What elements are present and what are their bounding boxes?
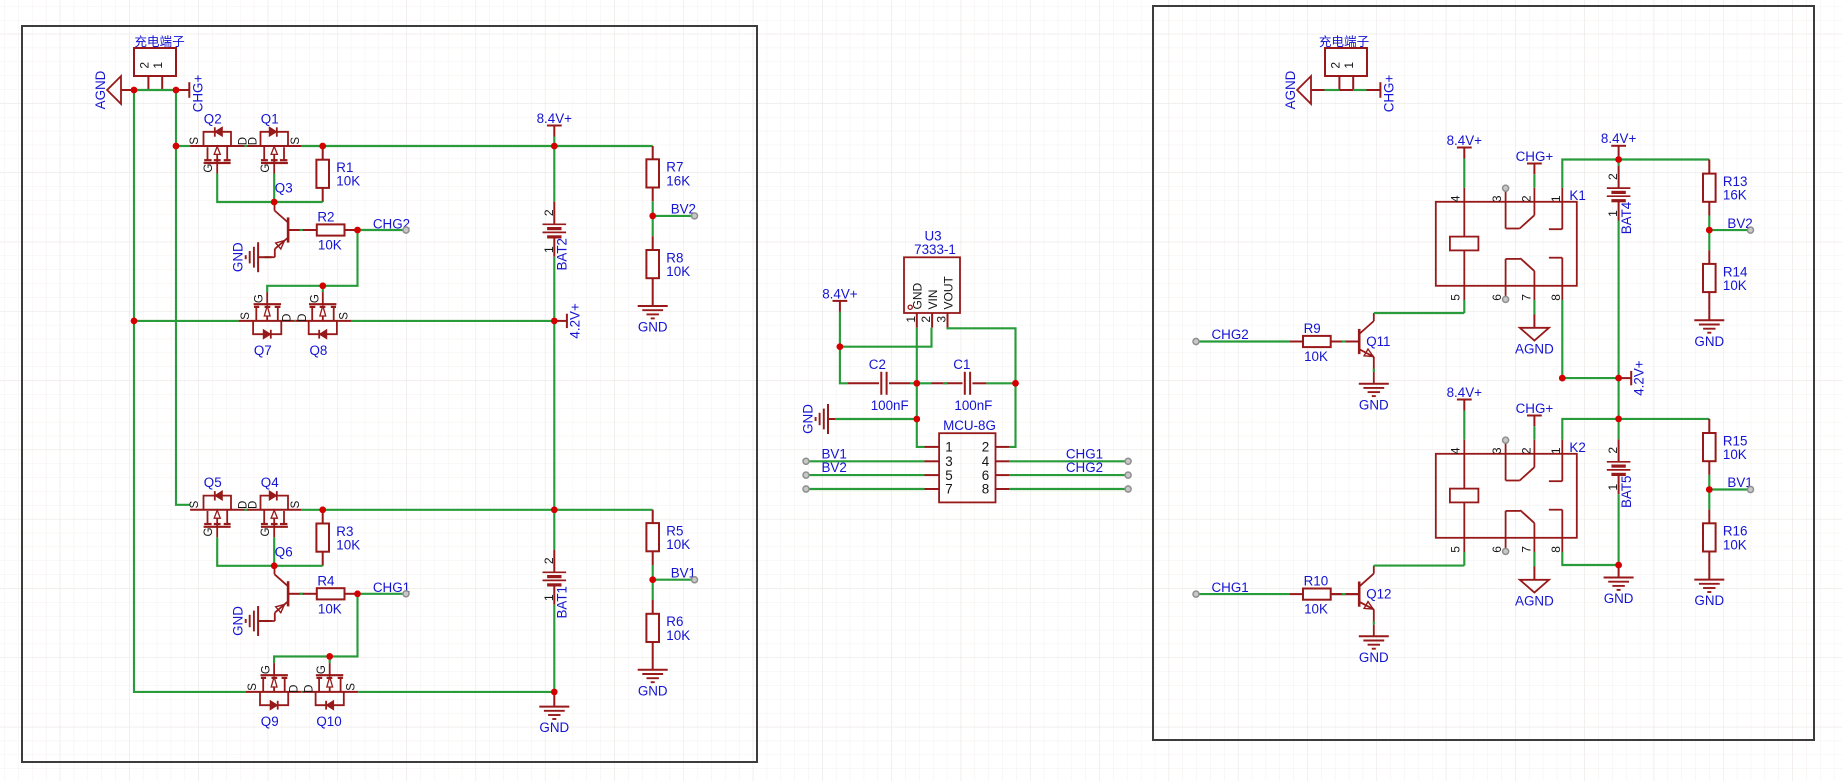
power flag 8.4V+ xyxy=(1457,147,1472,149)
svg-text:4: 4 xyxy=(982,454,990,469)
svg-text:G: G xyxy=(260,527,272,536)
ground AGND xyxy=(1533,315,1535,328)
junction battery column R5 row xyxy=(551,507,558,514)
junction BAT4/4.2V+ xyxy=(1615,375,1622,382)
resistor R7 xyxy=(646,159,659,187)
wire pin7 stub xyxy=(806,488,925,490)
svg-text:C2: C2 xyxy=(869,357,886,372)
wire U3 GND down xyxy=(917,328,925,447)
transistor Q12 xyxy=(1358,582,1361,607)
junction CHG2 node xyxy=(354,227,361,234)
svg-text:8.4V+: 8.4V+ xyxy=(1601,131,1637,146)
svg-text:G: G xyxy=(260,164,272,173)
wire CHG+ to K1 pin2 xyxy=(1533,174,1535,187)
wire R9 left pin xyxy=(1290,341,1303,343)
svg-text:Q3: Q3 xyxy=(275,181,293,196)
svg-text:3: 3 xyxy=(945,454,952,469)
ground AGND xyxy=(107,76,121,104)
wire C1 to VOUT column xyxy=(986,382,1015,384)
svg-text:1: 1 xyxy=(1606,210,1620,217)
svg-text:D: D xyxy=(248,501,260,509)
svg-text:D: D xyxy=(304,685,316,693)
svg-text:R10: R10 xyxy=(1304,574,1329,589)
svg-text:BAT4: BAT4 xyxy=(1619,201,1634,234)
svg-text:GND: GND xyxy=(231,242,246,272)
wire pin2 jumper xyxy=(1325,89,1340,91)
svg-text:K2: K2 xyxy=(1569,440,1585,455)
svg-text:CHG+: CHG+ xyxy=(1516,401,1554,416)
power flag 4.2V+ xyxy=(1619,377,1632,379)
svg-text:S: S xyxy=(189,137,201,145)
transistor Q1 xyxy=(246,145,301,147)
svg-text:CHG+: CHG+ xyxy=(1382,75,1397,113)
svg-text:D: D xyxy=(289,685,301,693)
wire R15 to BV1 xyxy=(1708,461,1710,475)
svg-text:8: 8 xyxy=(982,482,989,497)
wire R4 right pin xyxy=(345,593,358,595)
svg-text:2: 2 xyxy=(1606,447,1620,454)
svg-text:Q1: Q1 xyxy=(261,111,279,126)
wire R15 pin xyxy=(1708,419,1710,433)
net label BV1 xyxy=(653,579,692,581)
svg-text:5: 5 xyxy=(945,468,952,483)
svg-text:D: D xyxy=(297,314,309,322)
svg-text:3: 3 xyxy=(1490,447,1504,454)
wire pin1 jumper xyxy=(1353,89,1366,91)
svg-text:16K: 16K xyxy=(1723,188,1747,203)
wire VOUT to C1/MCU xyxy=(948,328,1016,447)
svg-text:3: 3 xyxy=(935,316,949,323)
svg-text:MCU-8G: MCU-8G xyxy=(943,418,996,433)
svg-text:GND: GND xyxy=(1694,334,1724,349)
wire row to BAT2 xyxy=(553,146,555,202)
net label CHG1 xyxy=(1193,591,1199,597)
svg-text:10K: 10K xyxy=(666,628,690,643)
wire BV2 to R8 xyxy=(652,216,654,236)
junction C-row left xyxy=(914,380,921,387)
svg-text:2: 2 xyxy=(1606,173,1620,180)
wire Q8 S to battery column xyxy=(351,320,554,322)
wire R14 bottom xyxy=(1708,292,1710,320)
svg-text:AGND: AGND xyxy=(1515,342,1554,357)
svg-text:BAT2: BAT2 xyxy=(555,238,570,271)
svg-text:BV2: BV2 xyxy=(822,460,847,475)
resistor R5 xyxy=(646,523,659,551)
wire Q5 gate down xyxy=(217,537,323,566)
transistor Q4 xyxy=(246,509,301,511)
svg-text:10K: 10K xyxy=(1304,349,1328,364)
transistor Q9 xyxy=(246,691,302,693)
svg-text:10K: 10K xyxy=(666,537,690,552)
svg-text:1: 1 xyxy=(542,594,556,601)
svg-text:Q11: Q11 xyxy=(1366,334,1390,349)
svg-text:Q6: Q6 xyxy=(275,545,293,560)
wire Q2 gate down xyxy=(217,173,323,202)
svg-text:1: 1 xyxy=(904,316,918,323)
wire R2 right pin xyxy=(345,229,358,231)
wire R16 bottom xyxy=(1708,552,1710,580)
power flag CHG+ xyxy=(1367,89,1381,91)
junction bottom GND xyxy=(1615,562,1622,569)
battery BAT4 xyxy=(1618,166,1620,188)
wire R8 bottom pin xyxy=(652,278,654,306)
junction Q3 node xyxy=(271,199,278,206)
wire Q10 S to GND column xyxy=(358,691,554,693)
svg-text:Q7: Q7 xyxy=(254,343,272,358)
svg-text:G: G xyxy=(261,665,273,674)
ground GND xyxy=(1359,635,1389,637)
svg-text:7: 7 xyxy=(1519,294,1533,301)
svg-text:GND: GND xyxy=(1694,593,1724,608)
svg-text:G: G xyxy=(309,294,321,303)
svg-text:2: 2 xyxy=(1328,62,1342,69)
wire Q6 base to R4 xyxy=(303,593,317,595)
svg-text:8: 8 xyxy=(1549,294,1563,301)
wire Q11 emitter xyxy=(1373,369,1375,373)
wire Q4 gate down xyxy=(273,537,275,566)
net label CHG2 xyxy=(1193,339,1199,345)
svg-text:10K: 10K xyxy=(318,238,342,253)
net label BV1 xyxy=(1709,488,1747,490)
wire AGND pin xyxy=(121,89,134,91)
svg-text:6: 6 xyxy=(1490,294,1504,301)
svg-text:4: 4 xyxy=(1448,447,1462,454)
wire Q7-Q8 drain join xyxy=(295,320,296,322)
junction GND node xyxy=(914,416,921,423)
svg-text:VOUT: VOUT xyxy=(941,275,955,309)
svg-text:S: S xyxy=(189,500,201,508)
wire BV2 to R14 xyxy=(1708,230,1710,250)
wire BV1 to R16 xyxy=(1708,490,1710,510)
wire K2 pin7 down xyxy=(1533,552,1535,567)
svg-text:100nF: 100nF xyxy=(871,398,909,413)
svg-text:R2: R2 xyxy=(317,210,334,225)
svg-text:1: 1 xyxy=(151,62,165,69)
battery BAT1 xyxy=(553,550,555,572)
power flag 8.4V+ xyxy=(1611,145,1626,147)
svg-text:6: 6 xyxy=(982,468,989,483)
svg-text:G: G xyxy=(316,665,328,674)
svg-text:10K: 10K xyxy=(1723,447,1747,462)
svg-text:4.2V+: 4.2V+ xyxy=(567,303,582,339)
svg-text:G: G xyxy=(203,527,215,536)
wire BAT4 bottom xyxy=(1618,221,1620,379)
net label BV2 xyxy=(1709,229,1747,231)
svg-text:4: 4 xyxy=(1448,195,1462,202)
ground AGND xyxy=(1533,567,1535,580)
svg-text:CHG2: CHG2 xyxy=(1212,327,1249,342)
power flag 8.4V+ xyxy=(833,300,848,302)
transistor Q10 xyxy=(302,691,358,693)
wire 8.4V+ down xyxy=(840,312,848,383)
svg-text:10K: 10K xyxy=(336,538,360,553)
wire CHG2 to Q7/Q8 gates xyxy=(267,230,357,292)
wire Q12 collector to K2 pin5 xyxy=(1374,565,1465,567)
resistor R2 xyxy=(317,224,345,235)
svg-text:Q2: Q2 xyxy=(204,111,222,126)
net label CHG2 xyxy=(358,229,404,231)
wire C2 to GND node xyxy=(910,382,917,384)
svg-text:BAT1: BAT1 xyxy=(555,586,570,619)
net label BV2 xyxy=(806,474,925,476)
junction 8.4V+ node xyxy=(837,343,844,350)
wire GND symbol to node xyxy=(835,418,917,420)
wire 4.2V+ rail down to BAT5 row xyxy=(1618,378,1620,419)
svg-text:10K: 10K xyxy=(1723,537,1747,552)
svg-text:GND: GND xyxy=(911,283,925,310)
wire R13 to BV2 xyxy=(1708,202,1710,216)
junction BV1 xyxy=(649,576,656,583)
wire BV1 to R6 xyxy=(652,580,654,600)
resistor R4 xyxy=(317,588,345,599)
svg-text:S: S xyxy=(346,683,358,691)
wire BAT5 top xyxy=(1618,419,1620,440)
svg-text:BV1: BV1 xyxy=(822,446,847,461)
wire BAT4 top xyxy=(1618,160,1620,166)
wire 4.2V+ rail down xyxy=(553,321,555,510)
svg-text:AGND: AGND xyxy=(1515,594,1554,609)
resistor R14 xyxy=(1703,264,1716,292)
power flag 4.2V+ xyxy=(554,320,567,322)
svg-text:8.4V+: 8.4V+ xyxy=(537,111,573,126)
wire R5 row to BAT1 xyxy=(553,510,555,550)
wire Q11 collector to K1 pin5 xyxy=(1374,312,1465,314)
wire 8.4V+ to VIN xyxy=(840,328,932,347)
wire CHG1 to Q9/Q10 gates xyxy=(274,594,357,663)
wire pin8 stub xyxy=(1009,488,1128,490)
wire R1 bottom pin xyxy=(322,188,324,202)
svg-text:CHG1: CHG1 xyxy=(1066,446,1103,461)
wire Q1 S to 8.4V+ rail to R7 xyxy=(301,145,652,147)
ground GND xyxy=(1359,383,1389,385)
wire row to R5 xyxy=(554,509,652,511)
svg-text:BAT5: BAT5 xyxy=(1619,476,1634,509)
svg-text:充电端子: 充电端子 xyxy=(1319,34,1369,49)
svg-text:GND: GND xyxy=(539,720,569,735)
junction rail/Q2 row xyxy=(173,143,180,150)
junction R1 top xyxy=(319,143,326,150)
resistor R16 xyxy=(1703,523,1716,551)
junction pin8/4.2V+ xyxy=(1559,375,1566,382)
ground GND xyxy=(257,242,259,272)
svg-text:2: 2 xyxy=(1519,447,1533,454)
svg-text:2: 2 xyxy=(542,209,556,216)
svg-text:8.4V+: 8.4V+ xyxy=(1447,385,1483,400)
wire R3 bottom pin xyxy=(322,552,324,566)
svg-text:5: 5 xyxy=(1448,546,1462,553)
svg-text:7: 7 xyxy=(1519,546,1533,553)
svg-text:AGND: AGND xyxy=(93,70,108,109)
svg-text:2: 2 xyxy=(919,316,933,323)
svg-text:S: S xyxy=(290,500,302,508)
wire Q4 S to right xyxy=(301,509,554,511)
wire rail to Q7 S xyxy=(134,320,239,322)
resistor R3 xyxy=(316,524,329,552)
svg-text:Q9: Q9 xyxy=(261,714,279,729)
battery BAT5 xyxy=(1618,439,1620,461)
power flag CHG+ K1 xyxy=(1533,164,1535,175)
svg-text:16K: 16K xyxy=(666,173,690,188)
wire R7 top pin xyxy=(652,146,654,159)
svg-text:2: 2 xyxy=(542,557,556,564)
svg-text:10K: 10K xyxy=(318,601,342,616)
svg-text:1: 1 xyxy=(1342,62,1356,69)
svg-text:S: S xyxy=(339,312,351,320)
svg-text:G: G xyxy=(203,164,215,173)
net label CHG2 xyxy=(1009,474,1128,476)
svg-text:1: 1 xyxy=(1549,447,1563,454)
net label CHG1 xyxy=(1009,460,1128,462)
ground AGND xyxy=(1297,76,1311,104)
wire pin1-pin2 link xyxy=(1339,89,1353,91)
svg-text:GND: GND xyxy=(638,320,668,335)
battery BAT2 xyxy=(553,202,555,224)
wire R7 bottom to BV2 xyxy=(652,188,654,202)
resistor R8 xyxy=(646,250,659,278)
wire AGND to CHG+ row xyxy=(134,89,176,91)
ground GND xyxy=(638,669,668,671)
svg-text:2: 2 xyxy=(137,62,151,69)
wire 8.4V+ to K1 pin4 xyxy=(1463,159,1465,188)
junction BV2 xyxy=(649,213,656,220)
svg-text:1: 1 xyxy=(1606,484,1620,491)
resistor R15 xyxy=(1703,433,1716,461)
svg-text:8.4V+: 8.4V+ xyxy=(1447,133,1483,148)
wire K2 pin1 to R15 xyxy=(1562,419,1709,440)
svg-text:6: 6 xyxy=(1490,546,1504,553)
svg-text:CHG+: CHG+ xyxy=(1516,149,1554,164)
junction at 176,90 xyxy=(173,87,180,94)
svg-text:CHG1: CHG1 xyxy=(1212,580,1249,595)
junction at 134,90 xyxy=(131,87,138,94)
power flag 8.4V+ xyxy=(547,125,562,127)
svg-text:CHG+: CHG+ xyxy=(191,75,206,113)
svg-text:GND: GND xyxy=(638,683,668,698)
junction R3 top xyxy=(319,507,326,514)
svg-text:R4: R4 xyxy=(317,573,335,588)
resistor R1 xyxy=(316,160,329,188)
transistor Q6 xyxy=(287,581,290,606)
svg-text:4.2V+: 4.2V+ xyxy=(1632,360,1647,396)
svg-text:G: G xyxy=(254,294,266,303)
junction BAT5 top xyxy=(1615,416,1622,423)
transistor Q8 xyxy=(296,320,352,322)
wire Q10 gate stub xyxy=(329,656,331,663)
svg-text:VIN: VIN xyxy=(926,289,940,309)
power flag CHG+ K2 xyxy=(1533,416,1535,427)
wire R10 right pin xyxy=(1331,593,1360,595)
svg-text:AGND: AGND xyxy=(1283,70,1298,109)
svg-text:10K: 10K xyxy=(336,174,360,189)
wire R3 top pin xyxy=(322,510,324,524)
power flag 8.4V+ xyxy=(1457,399,1472,401)
resistor R10 xyxy=(1303,589,1331,600)
svg-text:10K: 10K xyxy=(666,264,690,279)
svg-text:Q4: Q4 xyxy=(261,475,279,490)
svg-text:GND: GND xyxy=(1604,591,1634,606)
net label BV2 xyxy=(653,215,692,217)
svg-text:10K: 10K xyxy=(1723,278,1747,293)
power flag CHG+ xyxy=(176,89,189,91)
svg-text:Q8: Q8 xyxy=(310,343,328,358)
svg-text:R9: R9 xyxy=(1304,321,1321,336)
svg-text:GND: GND xyxy=(231,606,246,636)
wire K2 pin8 down xyxy=(1562,552,1618,565)
wire R5 bottom to BV1 xyxy=(652,551,654,565)
ground GND xyxy=(257,606,259,636)
svg-text:S: S xyxy=(247,683,259,691)
svg-text:7333-1: 7333-1 xyxy=(914,242,956,257)
junction bottom GND xyxy=(551,689,558,696)
junction Q8 gate xyxy=(320,283,327,290)
wire 8.4V+ stub xyxy=(1618,157,1620,160)
wire BAT1 to bottom GND xyxy=(553,605,555,692)
wire AGND pin xyxy=(1311,89,1325,91)
svg-text:GND: GND xyxy=(1359,397,1389,412)
wire K1 pin7 down xyxy=(1533,300,1535,315)
wire BAT2 to mid rail xyxy=(553,257,555,321)
wire R9 right pin xyxy=(1331,341,1360,343)
transistor Q2 xyxy=(190,145,245,147)
wire K1 pin8 down xyxy=(1562,300,1618,378)
wire R13 pin xyxy=(1708,160,1710,174)
relay K1 xyxy=(1436,202,1577,286)
svg-text:7: 7 xyxy=(945,482,952,497)
wire 8.4V+ to row xyxy=(553,137,555,147)
wire R10 left pin xyxy=(1290,593,1303,595)
wire CHG+ to K2 pin2 xyxy=(1533,426,1535,439)
svg-text:1: 1 xyxy=(1549,195,1563,202)
transistor Q3 xyxy=(287,217,290,242)
svg-text:2: 2 xyxy=(982,440,989,455)
junction BAT4 top xyxy=(1615,156,1622,163)
wire Q1 gate down xyxy=(273,173,275,202)
wire rail x=176 xyxy=(176,90,190,505)
transistor Q5 xyxy=(190,509,245,511)
junction CHG1 node xyxy=(354,591,361,598)
junction BV2 xyxy=(1706,227,1713,234)
svg-text:CHG2: CHG2 xyxy=(1066,460,1103,475)
frame left block xyxy=(22,26,757,762)
relay K2 xyxy=(1436,454,1577,538)
transistor Q7 xyxy=(239,320,295,322)
svg-text:100nF: 100nF xyxy=(954,398,992,413)
junction C-row right xyxy=(1012,380,1019,387)
svg-text:1: 1 xyxy=(945,440,952,455)
ground GND xyxy=(638,305,668,307)
svg-text:K1: K1 xyxy=(1569,188,1585,203)
ground GND xyxy=(1694,579,1724,581)
svg-text:C1: C1 xyxy=(953,357,970,372)
resistor R6 xyxy=(646,614,659,642)
wire R6 bottom pin xyxy=(652,642,654,670)
svg-text:GND: GND xyxy=(1359,650,1389,665)
svg-text:GND: GND xyxy=(801,404,816,434)
junction BV1 xyxy=(1706,486,1713,493)
transistor Q11 xyxy=(1358,329,1361,354)
svg-text:8.4V+: 8.4V+ xyxy=(822,286,858,301)
wire left rail x=134 xyxy=(134,90,245,692)
svg-text:10K: 10K xyxy=(1304,602,1328,617)
wire Q2 S feed xyxy=(176,145,190,147)
junction rail/Q7 row xyxy=(131,318,138,325)
ground GND xyxy=(1694,319,1724,321)
wire Q9-Q10 drain join xyxy=(301,691,302,693)
svg-text:Q5: Q5 xyxy=(204,475,222,490)
svg-text:S: S xyxy=(240,312,252,320)
junction Q6 node xyxy=(271,563,278,570)
svg-text:S: S xyxy=(290,137,302,145)
